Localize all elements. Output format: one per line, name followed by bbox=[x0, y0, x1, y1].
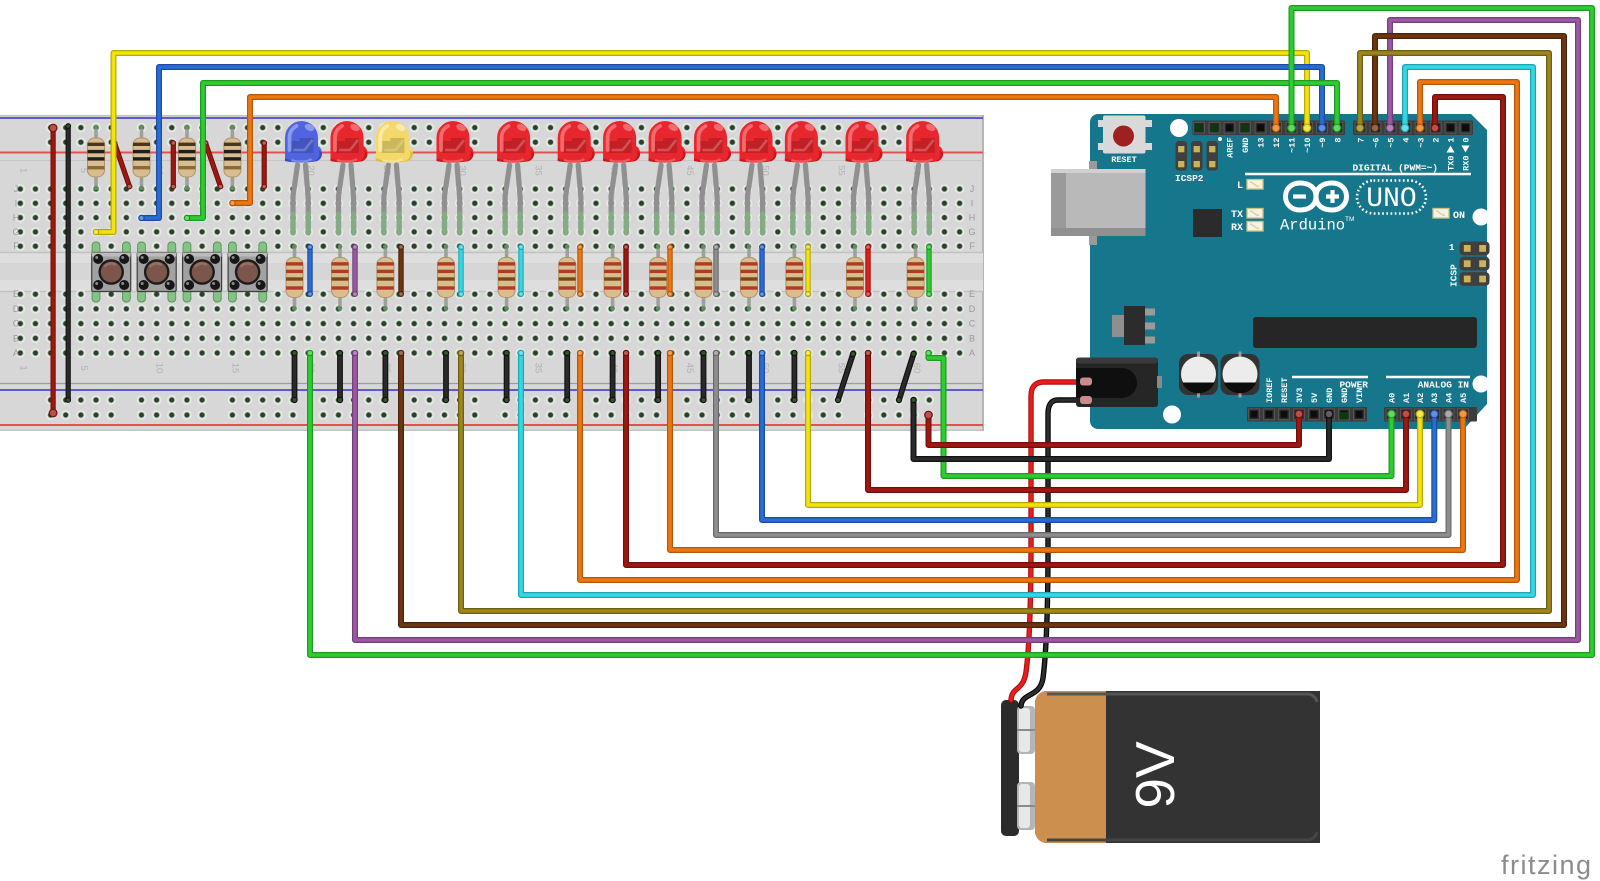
resistor R4 10k bbox=[224, 125, 241, 191]
capacitor C2 bbox=[1221, 352, 1260, 398]
digital pin header bbox=[1193, 121, 1346, 136]
wire channel jumper 3 (brown) bbox=[398, 244, 404, 297]
svg-text:RX: RX bbox=[1231, 223, 1243, 234]
svg-text:POWER: POWER bbox=[1339, 380, 1368, 391]
svg-text:Arduino: Arduino bbox=[1280, 217, 1345, 235]
pushbutton S2 bbox=[137, 242, 176, 302]
resistor R12 220 bbox=[650, 244, 667, 311]
wire col42 to pin2 (dark red) bbox=[623, 97, 1503, 565]
svg-text:~10: ~10 bbox=[1303, 138, 1313, 153]
svg-text:8: 8 bbox=[1333, 138, 1343, 143]
chip U3 bbox=[1193, 209, 1222, 237]
resistor R3 10k bbox=[179, 125, 196, 191]
wire black jumper 10 bbox=[746, 350, 752, 403]
svg-text:A1: A1 bbox=[1402, 393, 1412, 403]
svg-text:L: L bbox=[1237, 181, 1243, 192]
mounting hole bbox=[1473, 209, 1490, 226]
wire button1 to pin10 (yellow) bbox=[93, 53, 1312, 235]
svg-text:C: C bbox=[13, 319, 20, 329]
mounting hole bbox=[1163, 406, 1181, 424]
wire black jumper 6 bbox=[564, 350, 570, 403]
svg-text:35: 35 bbox=[532, 165, 543, 176]
LED LED11 (red) bbox=[785, 121, 822, 233]
svg-text:H: H bbox=[13, 213, 20, 223]
svg-text:4: 4 bbox=[1401, 138, 1411, 143]
pushbutton S1 bbox=[92, 242, 131, 302]
wire channel jumper 9 (gray) bbox=[713, 244, 719, 297]
wire channel jumper 12 (red) bbox=[865, 244, 871, 297]
resistor R14 220 bbox=[741, 244, 758, 311]
resistor R5 220 bbox=[286, 244, 303, 311]
svg-text:15: 15 bbox=[229, 363, 240, 374]
svg-text:A4: A4 bbox=[1444, 393, 1454, 403]
power header bbox=[1247, 407, 1367, 422]
LED LED7 (red) bbox=[603, 121, 640, 233]
svg-text:A2: A2 bbox=[1416, 393, 1426, 403]
wire channel jumper 5 (cyan) bbox=[518, 244, 524, 297]
LED LED8 (red) bbox=[649, 121, 686, 233]
svg-text:ICSP2: ICSP2 bbox=[1175, 173, 1204, 184]
svg-text:2: 2 bbox=[1432, 138, 1442, 143]
wire black jumper 13 (slanted) bbox=[896, 351, 917, 403]
wire black jumper 3 bbox=[382, 350, 388, 403]
resistor R9 220 bbox=[498, 244, 515, 311]
wire channel jumper 4 (cyan) bbox=[458, 244, 464, 297]
wire col45 to A5 (orange) bbox=[667, 350, 1468, 550]
battery connector bbox=[1001, 700, 1019, 836]
USB connector bbox=[1051, 161, 1146, 245]
svg-text:~9: ~9 bbox=[1318, 138, 1328, 148]
svg-text:13: 13 bbox=[1256, 138, 1266, 148]
svg-text:45: 45 bbox=[684, 165, 695, 176]
svg-text:E: E bbox=[969, 289, 975, 299]
ICSP header bbox=[1449, 242, 1490, 288]
svg-text:H: H bbox=[969, 213, 976, 223]
svg-text:fritzing: fritzing bbox=[1501, 850, 1593, 880]
LED LED5 (red) bbox=[497, 121, 534, 233]
svg-text:0: 0 bbox=[1461, 138, 1471, 143]
LED LED12 (red) bbox=[846, 121, 883, 233]
svg-text:3V3: 3V3 bbox=[1295, 388, 1305, 403]
svg-text:10: 10 bbox=[154, 363, 165, 374]
LED LED3 (yellow) bbox=[376, 121, 413, 233]
svg-text:F: F bbox=[13, 241, 19, 251]
ATmega IC bbox=[1253, 317, 1477, 348]
svg-text:A3: A3 bbox=[1430, 393, 1440, 403]
wire black jumper 8 bbox=[655, 350, 661, 403]
LED LED2 (red) bbox=[331, 121, 368, 233]
resistor R7 220 bbox=[377, 244, 394, 311]
svg-text:1: 1 bbox=[1449, 243, 1455, 253]
svg-text:TM: TM bbox=[1345, 216, 1354, 223]
svg-text:DIGITAL (PWM=~): DIGITAL (PWM=~) bbox=[1352, 163, 1438, 174]
wire black rail jumper bbox=[65, 123, 71, 403]
svg-text:D: D bbox=[13, 304, 20, 314]
resistor R16 220 bbox=[847, 244, 864, 311]
svg-text:45: 45 bbox=[684, 363, 695, 374]
svg-text:~5: ~5 bbox=[1386, 138, 1396, 148]
wire channel jumper 6 (orange) bbox=[577, 244, 583, 297]
resistor R13 220 bbox=[695, 244, 712, 311]
svg-text:~3: ~3 bbox=[1416, 138, 1426, 148]
svg-text:55: 55 bbox=[835, 165, 846, 176]
svg-text:1: 1 bbox=[17, 168, 28, 173]
resistor R11 220 bbox=[604, 244, 621, 311]
svg-text:F: F bbox=[969, 241, 975, 251]
pushbutton S4 bbox=[228, 242, 267, 302]
svg-text:1: 1 bbox=[17, 365, 28, 370]
wire col27 to pin6 (brown) bbox=[398, 36, 1564, 625]
LED LED13 (red) bbox=[906, 121, 943, 233]
power jack bbox=[1076, 358, 1162, 408]
LED LED9 (red) bbox=[694, 121, 731, 233]
svg-text:IOREF: IOREF bbox=[1265, 377, 1275, 403]
Arduino logo bbox=[1286, 183, 1347, 210]
wire red jumper J3 bbox=[203, 140, 224, 189]
wire red jumper J1 bbox=[112, 140, 133, 189]
wire GND black to rail bbox=[910, 397, 1333, 459]
battery black lead bbox=[1021, 400, 1089, 706]
svg-text:~6: ~6 bbox=[1371, 138, 1381, 148]
svg-text:RESET: RESET bbox=[1280, 377, 1290, 403]
svg-text:A: A bbox=[13, 348, 19, 358]
svg-text:UNO: UNO bbox=[1366, 184, 1416, 215]
svg-text:GND: GND bbox=[1241, 138, 1251, 153]
Arduino UNO board U1 bbox=[1051, 114, 1490, 429]
resistor R8 220 bbox=[438, 244, 455, 311]
wire channel jumper 7 (darkred) bbox=[623, 244, 629, 297]
LED LED10 (red) bbox=[740, 121, 777, 233]
svg-text:TX0: TX0 bbox=[1446, 156, 1456, 171]
ICSP2 header bbox=[1175, 137, 1222, 184]
svg-text:I: I bbox=[15, 198, 18, 208]
LED LED1 (blue) bbox=[285, 121, 322, 233]
svg-text:AREF: AREF bbox=[1225, 138, 1235, 158]
resistor R1 10k bbox=[88, 125, 105, 191]
svg-text:5V: 5V bbox=[1310, 392, 1320, 403]
svg-text:G: G bbox=[12, 227, 19, 237]
wire black jumper 11 bbox=[791, 350, 797, 403]
wire button3 to pin8 (green) bbox=[184, 83, 1342, 221]
svg-text:ANALOG IN: ANALOG IN bbox=[1418, 380, 1470, 391]
wire red jumper J4 bbox=[261, 140, 267, 189]
LED LED6 (red) bbox=[558, 121, 595, 233]
analog header bbox=[1384, 407, 1477, 422]
wire col20 to pin11 (green) bbox=[307, 8, 1592, 655]
wire red jumper J2 bbox=[170, 140, 176, 189]
mounting hole bbox=[1473, 376, 1490, 393]
wire black jumper 9 bbox=[700, 350, 706, 403]
svg-text:E: E bbox=[13, 289, 19, 299]
wire col39 to pin3 (orange) bbox=[577, 82, 1517, 580]
voltage regulator bbox=[1112, 306, 1155, 345]
digital pin header 2 bbox=[1353, 121, 1473, 136]
wire col24 to pin5 (purple) bbox=[352, 20, 1578, 640]
wire col31 to pin7 (olive) bbox=[458, 53, 1549, 611]
wire black jumper 7 bbox=[609, 350, 615, 403]
LED LED4 (red) bbox=[437, 121, 474, 233]
svg-text:~11: ~11 bbox=[1287, 138, 1297, 153]
wire channel jumper 8 (orange) bbox=[667, 244, 673, 297]
wire channel jumper 1 (blue) bbox=[307, 244, 313, 297]
svg-text:D: D bbox=[969, 304, 976, 314]
wire button2 to pin9 (blue) bbox=[138, 67, 1326, 221]
wire channel jumper 10 (blue) bbox=[759, 244, 765, 297]
pushbutton S3 bbox=[183, 242, 222, 302]
wire button4 to pin12 (orange) bbox=[229, 97, 1280, 206]
svg-text:A5: A5 bbox=[1459, 393, 1469, 403]
wire col61 to A0 (green) bbox=[925, 350, 1396, 476]
resistor R10 220 bbox=[559, 244, 576, 311]
svg-text:A: A bbox=[969, 348, 975, 358]
svg-text:12: 12 bbox=[1272, 138, 1282, 148]
wire 3V3 red to rail bbox=[924, 410, 1303, 445]
svg-text:B: B bbox=[13, 333, 19, 343]
svg-text:ICSP: ICSP bbox=[1449, 264, 1460, 287]
wire black jumper 5 bbox=[503, 350, 509, 403]
svg-text:A0: A0 bbox=[1387, 393, 1397, 403]
wire channel jumper 11 (yellow) bbox=[805, 244, 811, 297]
wire black jumper 12 (slanted) bbox=[835, 351, 856, 403]
battery red lead bbox=[1011, 382, 1089, 700]
svg-text:RESET: RESET bbox=[1111, 155, 1137, 165]
wire col58 to A1 (dark red) bbox=[865, 350, 1411, 490]
wire col48 to A4 (gray) bbox=[713, 350, 1453, 535]
svg-text:TX: TX bbox=[1231, 210, 1243, 221]
svg-text:C: C bbox=[969, 319, 976, 329]
svg-text:35: 35 bbox=[532, 363, 543, 374]
wire black jumper 1 bbox=[291, 350, 297, 403]
wire black jumper 4 bbox=[443, 350, 449, 403]
wire col35 to pin4 (cyan) bbox=[518, 67, 1533, 595]
resistor R17 220 bbox=[907, 244, 924, 311]
resistor R6 220 bbox=[332, 244, 349, 311]
resistor R2 10k bbox=[133, 125, 150, 191]
wire red rail jumper bbox=[49, 124, 58, 418]
wire col54 to A2 (yellow) bbox=[805, 350, 1425, 505]
svg-text:G: G bbox=[968, 227, 975, 237]
svg-text:9V: 9V bbox=[1124, 741, 1186, 809]
wire channel jumper 13 (green) bbox=[926, 244, 932, 297]
svg-text:J: J bbox=[970, 184, 975, 194]
svg-text:1: 1 bbox=[1446, 138, 1456, 143]
svg-text:5: 5 bbox=[78, 365, 89, 370]
wire channel jumper 2 (purple) bbox=[352, 244, 358, 297]
breadboard bbox=[0, 115, 983, 431]
ON LED bbox=[1433, 209, 1449, 219]
svg-text:B: B bbox=[969, 333, 975, 343]
svg-text:RX0: RX0 bbox=[1461, 156, 1471, 171]
9V battery bbox=[1001, 691, 1320, 843]
wire col51 to A3 (blue) bbox=[759, 350, 1439, 520]
svg-text:ON: ON bbox=[1453, 211, 1465, 222]
svg-text:J: J bbox=[14, 184, 19, 194]
wire black jumper 2 bbox=[337, 350, 343, 403]
capacitor C1 bbox=[1179, 352, 1218, 398]
mounting hole bbox=[1170, 119, 1188, 137]
svg-text:7: 7 bbox=[1356, 138, 1366, 143]
resistor R15 220 bbox=[786, 244, 803, 311]
RESET button bbox=[1098, 116, 1152, 166]
UNO label bbox=[1357, 181, 1426, 214]
svg-text:GND: GND bbox=[1325, 388, 1335, 403]
svg-text:I: I bbox=[971, 198, 974, 208]
